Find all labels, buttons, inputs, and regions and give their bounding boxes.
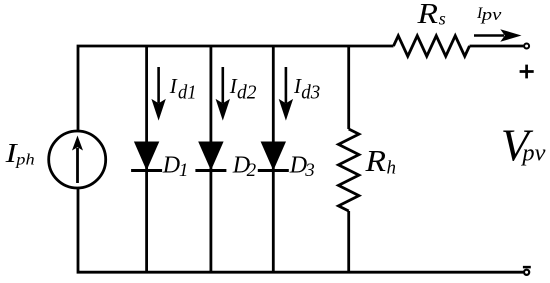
- wire top bus and left branch upper: [78, 46, 394, 130]
- svg-text:d2: d2: [237, 83, 257, 104]
- wire Rh branch lower: [347, 211, 350, 272]
- output current Ipv arrow shaft: [474, 34, 504, 37]
- svg-text:1: 1: [179, 160, 189, 181]
- wire diode branch 1: [145, 46, 148, 272]
- current arrow Id1 shaft: [157, 67, 160, 103]
- minus sign: [523, 266, 531, 269]
- svg-text:ph: ph: [15, 151, 34, 168]
- svg-text:D: D: [162, 152, 180, 178]
- current arrow Id3 shaft: [285, 67, 288, 103]
- wire left branch lower and bottom bus: [78, 189, 523, 272]
- current arrow Id1 head: [151, 99, 165, 121]
- resistor Rs zigzag: [394, 36, 470, 57]
- svg-text:R: R: [416, 0, 438, 30]
- wire diode branch 2: [209, 46, 212, 272]
- diode D2 cathode bar: [195, 169, 226, 172]
- current arrow Id2 head: [216, 99, 230, 121]
- current arrow Id3 head: [279, 99, 293, 121]
- wire Rh branch upper: [347, 46, 350, 129]
- plus sign: [520, 65, 534, 79]
- diode D3 triangle: [261, 142, 286, 171]
- current source arrowhead: [72, 136, 83, 151]
- output current Ipv arrow head: [500, 29, 521, 42]
- svg-text:h: h: [387, 157, 397, 178]
- negative terminal: [524, 270, 529, 275]
- svg-text:pv: pv: [481, 5, 502, 24]
- diode D2 triangle: [198, 142, 223, 171]
- diode D1 triangle: [134, 142, 159, 171]
- svg-text:pv: pv: [520, 140, 545, 166]
- svg-text:I: I: [169, 74, 178, 98]
- svg-text:2: 2: [247, 160, 257, 181]
- svg-text:3: 3: [304, 160, 315, 181]
- wire from Rs to positive terminal: [470, 45, 524, 48]
- resistor Rh zigzag: [338, 129, 359, 211]
- wire diode branch 3: [272, 46, 275, 272]
- svg-text:d1: d1: [178, 83, 197, 104]
- diode D3 cathode bar: [258, 169, 289, 172]
- positive terminal: [524, 44, 529, 49]
- current source circle: [49, 131, 106, 188]
- svg-text:s: s: [439, 9, 446, 29]
- current arrow Id2 shaft: [222, 67, 225, 103]
- diode D1 cathode bar: [131, 169, 162, 172]
- current source arrow shaft: [76, 148, 79, 183]
- svg-text:R: R: [364, 143, 386, 178]
- svg-text:d3: d3: [301, 83, 320, 104]
